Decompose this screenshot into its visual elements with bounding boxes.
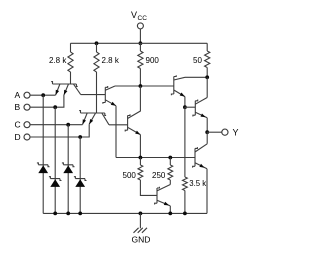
resistor R3 900 — [138, 43, 143, 86]
node A clamp junction — [41, 93, 45, 97]
node diode D rail junction — [78, 212, 82, 216]
transistor Q8 output pull-down — [193, 144, 208, 214]
transistor Q1 input A-B multi-emitter — [51, 82, 80, 95]
node N 500 junction — [139, 156, 143, 160]
node Vcc rail junction — [139, 41, 143, 45]
node B clamp junction — [53, 105, 57, 109]
svg-text:50: 50 — [193, 56, 202, 65]
svg-text:C: C — [15, 120, 21, 130]
clamp diode D2 input B — [49, 107, 62, 213]
resistor R5 500 — [138, 158, 157, 196]
power label Vcc — [131, 10, 147, 22]
transistor Q3 phase splitter 1 — [103, 86, 116, 158]
svg-text:250: 250 — [152, 171, 166, 180]
node N 250 junction — [168, 156, 172, 160]
wire input B — [30, 95, 64, 107]
resistor R1 2.8k — [68, 43, 73, 84]
input terminal D — [15, 132, 31, 142]
wire input A — [30, 94, 56, 96]
svg-text:Y: Y — [233, 128, 239, 138]
wire ground rail — [43, 212, 207, 214]
svg-text:2.8 k: 2.8 k — [102, 56, 120, 65]
node diode B rail junction — [53, 212, 57, 216]
node diode C rail junction — [66, 212, 70, 216]
node 900 collector junction — [139, 84, 143, 88]
transistor Q2 input C-D multi-emitter — [79, 111, 109, 125]
resistor R6 250 — [168, 158, 173, 185]
svg-text:2.8 k: 2.8 k — [49, 56, 67, 65]
wire input D — [30, 124, 89, 137]
transistor Q5 squaring network — [155, 185, 171, 214]
node C clamp junction — [66, 123, 70, 127]
wire Vcc to rail — [139, 29, 141, 43]
transistor Q4 phase splitter 2 — [125, 86, 140, 158]
wire emitter node N — [116, 157, 195, 159]
wire Q2 collector to Q4 base — [109, 124, 128, 126]
input terminal C — [15, 120, 31, 130]
node Q6 emitter Q7 base 3.5k junction — [183, 105, 187, 109]
resistor R4 50 — [205, 43, 210, 77]
node 3.5k rail junction — [183, 212, 187, 216]
input terminal A — [15, 90, 31, 100]
svg-text:3.5 k: 3.5 k — [189, 179, 206, 188]
output terminal Y — [222, 128, 239, 138]
node ground tap junction — [139, 212, 143, 216]
wire 50 node down to Q7 collector — [206, 77, 208, 97]
node output Y junction — [205, 130, 209, 134]
transistor Q6 darlington driver — [171, 75, 185, 107]
clamp diode D3 input C — [62, 125, 75, 214]
node rail R2 junction — [95, 41, 99, 45]
wire Vcc top rail — [71, 42, 208, 44]
svg-text:500: 500 — [123, 171, 137, 180]
resistor R7 3.5k — [183, 107, 188, 213]
node D clamp junction — [78, 135, 82, 139]
wire Q1 collector to Q3 base — [81, 94, 106, 96]
input terminal B — [15, 102, 31, 112]
wire Q7 base — [185, 106, 195, 108]
svg-text:900: 900 — [146, 56, 160, 65]
svg-text:B: B — [15, 102, 21, 112]
clamp diode D4 input D — [74, 137, 87, 213]
resistor R2 2.8k — [94, 43, 99, 113]
svg-text:CC: CC — [138, 15, 148, 22]
node 50 collector junction — [205, 75, 209, 79]
svg-text:D: D — [15, 132, 21, 142]
wire Q3 collector line to 900 node and Q6 base — [115, 85, 174, 87]
power terminal Vcc — [137, 23, 143, 29]
clamp diode D1 input A — [37, 95, 50, 213]
ground — [132, 213, 151, 244]
svg-text:A: A — [15, 90, 21, 100]
svg-text:V: V — [131, 10, 137, 20]
wire output Y — [207, 131, 222, 133]
node Q5 emitter rail junction — [168, 212, 172, 216]
wire input C — [30, 124, 83, 126]
wire Q6 collector to 50 node — [185, 76, 207, 78]
svg-text:GND: GND — [132, 235, 151, 245]
transistor Q7 darlington output — [193, 98, 207, 133]
wire Y node to Q8 collector — [206, 132, 208, 144]
